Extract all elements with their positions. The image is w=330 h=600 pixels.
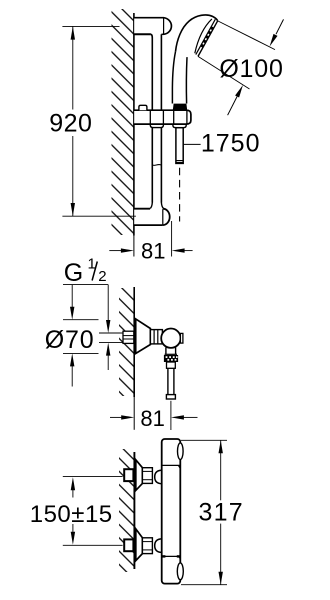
hand shower handle <box>172 52 187 104</box>
escutcheon upper union <box>136 460 143 491</box>
thermostat body <box>162 439 181 584</box>
in-wall pipe G1/2 <box>123 331 134 343</box>
svg-text:G: G <box>64 259 83 287</box>
hose connector nut <box>164 348 178 369</box>
nut upper union <box>142 468 152 484</box>
hose continuation dashed <box>179 168 181 222</box>
svg-text:920: 920 <box>49 109 92 137</box>
dimension 150+-15 <box>30 477 113 545</box>
dimension 81 middle <box>110 406 198 431</box>
shower hose top section <box>176 128 183 164</box>
svg-text:81: 81 <box>141 239 165 264</box>
dimension 317 <box>181 440 244 584</box>
wall hatching top <box>112 9 134 235</box>
shower holder slider <box>134 104 191 128</box>
in-wall rect upper <box>124 469 133 481</box>
wall hatching middle <box>119 288 134 396</box>
wall hatching bottom <box>119 449 134 572</box>
wall surface line middle <box>133 287 135 397</box>
dimension 920 <box>49 26 136 216</box>
svg-text:Ø100: Ø100 <box>219 55 283 83</box>
knob ellipse bottom <box>177 563 183 580</box>
dimension 81 top <box>109 221 192 264</box>
dimension D70 <box>45 285 99 387</box>
150 ext lines <box>63 476 123 478</box>
leader 1750 <box>184 129 261 157</box>
wall surface line top <box>133 13 135 236</box>
escutcheon lower union <box>136 529 143 561</box>
rail tube lower <box>150 124 164 209</box>
G1/2 dimension structure <box>63 285 123 370</box>
wall surface line bottom <box>133 452 135 569</box>
svg-text:150±15: 150±15 <box>30 501 113 528</box>
ball joint <box>161 329 183 348</box>
elbow cylinder <box>150 330 162 344</box>
svg-text:2: 2 <box>98 268 106 285</box>
in-wall rect lower <box>124 539 133 551</box>
rail tube upper <box>151 34 162 110</box>
svg-text:1750: 1750 <box>201 129 261 157</box>
svg-text:81: 81 <box>140 406 164 431</box>
dimension D100 <box>198 19 284 115</box>
bottom rail bracket <box>134 209 170 225</box>
escutcheon flange D70 <box>136 319 151 354</box>
label G 1/2 <box>64 256 107 288</box>
nut lower union <box>142 538 152 554</box>
hand shower head <box>176 15 218 56</box>
knob ellipse top <box>178 443 184 460</box>
top rail bracket <box>134 18 172 35</box>
svg-text:Ø70: Ø70 <box>45 326 95 354</box>
hose centerline / ext <box>170 401 172 430</box>
svg-text:317: 317 <box>199 499 244 527</box>
hose middle <box>166 368 175 399</box>
boss lower union <box>155 539 162 553</box>
boss upper union <box>155 470 162 483</box>
